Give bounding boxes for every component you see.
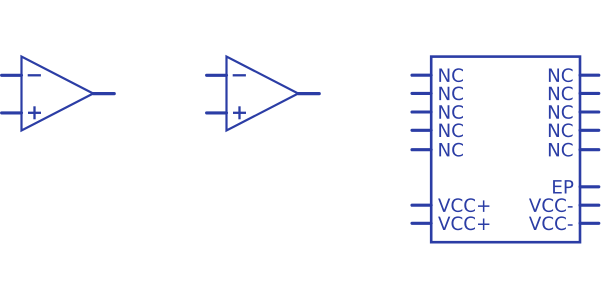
label NC right 2 — [549, 87, 573, 101]
label NC left 2 — [439, 87, 463, 101]
IC U3 right pins — [580, 75, 599, 223]
label VCC- b — [529, 216, 573, 230]
pin VCC+ wire a — [412, 204, 431, 207]
label VCC+ b — [438, 216, 489, 230]
IC U3 body — [431, 57, 580, 243]
label NC right 1 — [549, 68, 573, 82]
pin VCC- wire a — [580, 204, 599, 207]
label NC right 4 — [549, 123, 573, 137]
op-amp U2 minus label — [233, 74, 246, 76]
label NC left 4 — [439, 123, 463, 137]
op-amp U1 plus label — [28, 106, 41, 119]
label NC right 3 — [549, 105, 573, 119]
pin 4 wire — [412, 129, 431, 132]
op-amp U1 pin IN+ wire — [2, 111, 22, 114]
pin NC r1 wire — [580, 74, 599, 77]
pin 1 wire — [412, 74, 431, 77]
pin 2 wire — [412, 92, 431, 95]
op-amp U2 pin IN- wire — [207, 74, 227, 77]
pin 5 wire — [412, 148, 431, 151]
pin NC r2 wire — [580, 92, 599, 95]
op-amp U1 pin OUT wire — [93, 92, 114, 95]
op-amp U2 plus label — [233, 106, 246, 119]
pin VCC- wire b — [580, 222, 599, 225]
label VCC+ a — [438, 198, 489, 212]
label NC right 5 — [549, 143, 573, 157]
op-amp U2 pin IN+ wire — [207, 111, 227, 114]
pin NC r3 wire — [580, 110, 599, 113]
label EP — [553, 180, 573, 193]
op-amp U1 minus label — [28, 74, 41, 76]
op-amp U2 pin OUT wire — [298, 92, 319, 95]
op-amp U2 triangle — [227, 57, 299, 131]
IC U3 left pins NC x5 — [412, 75, 431, 223]
pin NC r4 wire — [580, 129, 599, 132]
label VCC- a — [529, 198, 573, 212]
pin 3 wire — [412, 110, 431, 113]
op-amp U1 triangle — [22, 57, 94, 131]
op-amp U1 pin IN- wire — [2, 74, 22, 77]
pin EP wire — [580, 185, 599, 188]
pin VCC+ wire b — [412, 222, 431, 225]
label NC left 5 — [439, 143, 463, 157]
label NC left 3 — [439, 105, 463, 119]
label NC left 1 — [439, 68, 463, 82]
pin NC r5 wire — [580, 148, 599, 151]
